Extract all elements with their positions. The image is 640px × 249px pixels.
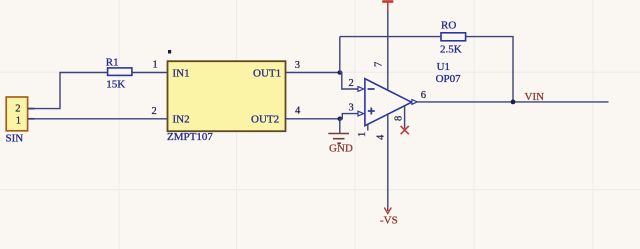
svg-text:2.5K: 2.5K <box>440 43 462 55</box>
wire pin 7 supply <box>387 11 389 90</box>
wire connector pin1 to U2 IN2 <box>28 118 167 120</box>
wire feedback top left <box>340 36 441 38</box>
svg-text:OUT1: OUT1 <box>253 68 281 80</box>
svg-text:7: 7 <box>374 62 385 67</box>
svg-text:8: 8 <box>394 116 405 121</box>
power stem red <box>387 2 389 11</box>
designator dot <box>168 50 171 54</box>
svg-text:GND: GND <box>329 143 353 155</box>
wire feedback vertical <box>339 37 341 73</box>
svg-text:1: 1 <box>153 60 158 71</box>
svg-text:2: 2 <box>152 106 157 117</box>
svg-text:SIN: SIN <box>6 133 24 145</box>
svg-text:IN1: IN1 <box>173 68 190 80</box>
svg-text:VIN: VIN <box>525 91 545 103</box>
IC U2 ZMPT107 body <box>168 61 286 131</box>
connector P1 SIN body <box>6 97 27 131</box>
pin 1 stub <box>367 124 369 130</box>
wire feedback top right <box>466 37 513 102</box>
wire OUT1 to node A <box>286 72 340 74</box>
wire connector pin2 to R1 <box>28 73 107 109</box>
svg-text:15K: 15K <box>106 79 125 91</box>
svg-text:RO: RO <box>441 19 456 31</box>
wire R1 to U2 pin1 <box>132 72 167 74</box>
wire node A to op-amp pin 2 <box>340 73 358 90</box>
pin stub 1 <box>28 118 35 120</box>
pin 3 input arrow <box>358 111 364 116</box>
op-amp U1 <box>365 79 412 126</box>
wire pin 4 to -VS <box>387 114 389 211</box>
svg-text:1: 1 <box>357 132 368 137</box>
svg-text:1: 1 <box>16 116 21 127</box>
wire output <box>417 101 608 103</box>
power -VS symbol <box>384 208 391 214</box>
svg-text:6: 6 <box>421 90 426 101</box>
node A junction <box>338 70 343 75</box>
svg-text:ZMPT107: ZMPT107 <box>167 131 213 143</box>
resistor RO <box>441 33 466 41</box>
svg-text:3: 3 <box>295 60 300 71</box>
svg-text:2: 2 <box>349 78 354 89</box>
node B junction <box>338 117 343 122</box>
svg-text:3: 3 <box>349 103 354 114</box>
svg-text:U1: U1 <box>437 61 450 73</box>
svg-text:4: 4 <box>295 106 301 117</box>
power +V bar <box>382 0 393 3</box>
wire node B to op-amp pin 3 <box>340 114 358 119</box>
pin 2 input arrow <box>358 87 364 92</box>
pin 8 stub <box>404 106 406 128</box>
svg-text:IN2: IN2 <box>173 114 190 126</box>
minus sign <box>368 88 375 90</box>
no connect X on pin 8 <box>401 126 409 134</box>
svg-text:-VS: -VS <box>380 215 398 227</box>
pin 6 output arrow <box>412 100 417 105</box>
node C junction <box>511 100 516 105</box>
wire OUT2 to node B <box>286 118 340 120</box>
svg-text:R1: R1 <box>106 57 119 69</box>
svg-text:OP07: OP07 <box>436 73 462 85</box>
svg-text:OUT2: OUT2 <box>251 114 279 126</box>
svg-text:2: 2 <box>15 104 20 115</box>
pin stub 2 <box>28 108 35 110</box>
plus sign <box>368 108 375 115</box>
resistor R1 <box>108 68 132 76</box>
ground symbol <box>328 134 349 144</box>
wire node B to ground <box>339 119 341 133</box>
svg-text:4: 4 <box>376 134 387 140</box>
